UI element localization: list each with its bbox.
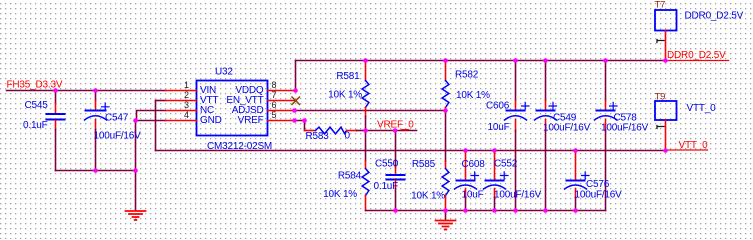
svg-text:100uF/16V: 100uF/16V [601,122,649,133]
junction at (465,150) [463,148,468,153]
pin 8 stub [268,90,296,92]
svg-text:R585: R585 [412,159,436,170]
pin 1 stub [166,90,197,92]
svg-text:0.1uF: 0.1uF [23,120,48,131]
svg-text:FH35_D3.3V: FH35_D3.3V [7,80,63,91]
junction at (365,60) [363,58,368,63]
net label underline VTT_0 [667,149,708,151]
svg-text:10K 1%: 10K 1% [411,191,445,202]
junction at (304,120) [302,118,307,123]
svg-text:1: 1 [184,80,189,90]
wire bottom-left rail [56,170,136,172]
svg-text:0: 0 [345,131,351,142]
junction at (494,210) [492,208,497,213]
svg-text:T9: T9 [655,91,666,102]
junction at (665,150) [663,148,668,153]
svg-text:10uF: 10uF [462,190,484,201]
no-connect X pin 7 [292,97,300,105]
wire pin4 to left [136,120,166,122]
resistor R581 [362,61,369,131]
node FH35_D3.3V wire [7,90,166,92]
capacitor C552 [484,151,509,211]
svg-text:T7: T7 [655,0,666,10]
svg-text:100uF/16V: 100uF/16V [575,190,623,201]
wire top DDR rail [296,60,666,62]
svg-text:7: 7 [272,90,277,100]
junction at (494,150) [492,148,497,153]
net label underline VREF_0 [402,129,409,131]
resistor R583 [305,127,366,134]
svg-text:C545: C545 [25,100,49,111]
junction at (395,210) [393,208,398,213]
junction at (445,110) [443,108,448,113]
junction at (515,60) [513,58,518,63]
wire pin3 to bend [137,111,166,121]
junction at (135,120) [133,118,138,123]
pin 7 stub [268,100,296,102]
wire ground rail [366,210,606,212]
svg-text:10K 1%: 10K 1% [323,189,357,200]
junction at (294,120) [292,118,297,123]
capacitor C547 [85,91,110,171]
junction at (95,90) [93,88,98,93]
svg-text:100uF/16V: 100uF/16V [94,131,142,142]
pin 5 stub [268,120,295,122]
junction at (55,90) [53,88,58,93]
capacitor C550 [386,131,406,211]
svg-text:DDR0_D2.5V: DDR0_D2.5V [667,50,726,61]
wire VREF_0 [366,130,417,132]
svg-text:2: 2 [184,90,189,100]
svg-text:C608: C608 [462,159,486,170]
svg-text:R584: R584 [338,171,362,182]
testpoint T9 [655,101,677,150]
pin 6 stub [268,110,295,112]
op-amp U32 box [197,81,268,136]
wire pin2 to vertical [156,100,166,102]
junction at (545,60) [543,58,548,63]
wire gnd vertical left [135,121,137,210]
capacitor C578 [595,61,618,211]
pin 3 stub [166,110,197,112]
svg-text:5: 5 [272,110,277,120]
svg-text:R582: R582 [455,70,479,81]
svg-text:CM3212-02SM: CM3212-02SM [207,141,272,152]
resistor R584 [362,131,369,211]
junction at (445,60) [443,58,448,63]
svg-text:10K 1%: 10K 1% [328,90,362,101]
svg-text:4: 4 [184,110,189,120]
svg-text:10K 1%: 10K 1% [456,90,490,101]
net label underline DDR0_D2.5V [667,60,729,62]
svg-text:0.1uF: 0.1uF [374,181,399,192]
capacitor C606 [505,61,530,211]
ground left [126,211,146,220]
svg-text:C576: C576 [586,179,610,190]
junction at (445,210) [443,208,448,213]
ground middle [436,211,456,230]
svg-text:R581: R581 [336,71,360,82]
wire pin5 bend [295,121,305,131]
svg-text:R583: R583 [306,131,330,142]
junction at (135,170) [133,168,138,173]
wire VTT vertical from pin2 [155,101,157,151]
svg-text:GND: GND [200,115,222,126]
resistor R585 [442,111,449,211]
junction at (365,130) [363,128,368,133]
svg-text:DDR0_D2.5V: DDR0_D2.5V [685,11,744,22]
svg-text:VTT_0: VTT_0 [679,140,709,151]
svg-text:C552: C552 [494,159,518,170]
svg-text:8: 8 [272,80,277,90]
svg-text:C550: C550 [375,159,399,170]
junction at (515,210) [513,208,518,213]
junction at (394.6,130) [393,128,398,133]
wire VTT rail [156,150,667,152]
junction at (295,90) [293,88,298,93]
wire pin8 riser [295,61,297,91]
svg-text:C547: C547 [105,113,129,124]
pin 4 stub [166,120,197,122]
svg-text:100uF/16V: 100uF/16V [494,190,542,201]
junction at (95,170) [93,168,98,173]
junction at (575,210) [573,208,578,213]
wire ADJSD [295,110,446,112]
junction at (605,60) [603,58,608,63]
junction at (465,210) [463,208,468,213]
junction at (575,150) [573,148,578,153]
junction at (665,60) [663,58,668,63]
resistor R582 [442,61,449,111]
svg-text:100uF/16V: 100uF/16V [543,122,591,133]
capacitor C576 [565,151,590,211]
svg-text:VREF: VREF [238,115,264,126]
svg-text:C606: C606 [486,101,510,112]
junction at (294,110) [292,108,297,113]
svg-text:VREF_0: VREF_0 [377,119,414,130]
svg-text:6: 6 [272,100,277,110]
pin 2 stub [166,100,197,102]
capacitor C549 [535,61,557,211]
svg-text:3: 3 [184,100,189,110]
testpoint T7 [655,10,677,61]
capacitor C608 [455,151,479,211]
capacitor C545 [46,91,66,171]
junction at (545,210) [543,208,548,213]
svg-text:VTT_0: VTT_0 [687,103,717,114]
svg-text:10uF: 10uF [488,122,510,133]
svg-text:U32: U32 [215,67,233,78]
